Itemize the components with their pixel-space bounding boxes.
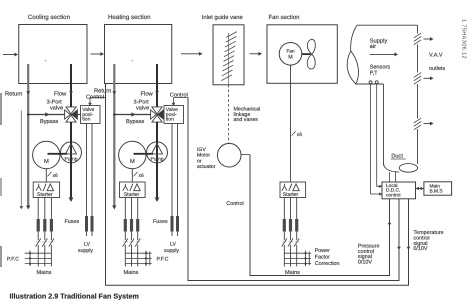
svg-text:LV: LV [170,242,176,248]
label M heating [130,159,135,165]
main BMS box [424,182,452,195]
LV supply wires heating [171,124,180,237]
svg-text:Correction: Correction [315,261,340,267]
label Main B.M.S [430,184,443,195]
label 3-Port valve (heating) [134,100,150,112]
control bus fan section [250,155,390,276]
label Flow (cooling) [54,90,67,97]
duct bottom wall to sensors [356,83,384,85]
flow pipe lower cooling [70,122,72,198]
label x6 heating [139,173,145,179]
svg-text:Starter: Starter [37,192,53,198]
wire: air arrow guide vane to fan section [250,52,263,56]
flow outlet arrow heating [155,198,160,203]
svg-text:LV: LV [84,242,90,248]
label P.F.C (cooling) [7,256,19,262]
label V.A.V outlets [429,53,445,72]
svg-text:valve: valve [136,105,149,112]
motor-pump shaft heating [134,153,154,155]
label Pressure control signal 0/10V [358,244,380,266]
pump triangle heating [152,144,163,154]
svg-text:P.F.C: P.F.C [7,256,19,262]
svg-text:M: M [288,55,293,61]
node center mark heating coil [131,59,134,62]
pump triangle cooling [66,144,77,154]
return flow tick cooling [26,91,30,94]
VAV outlet arrow 2 [424,76,434,80]
temperature sensor wires duct to DDC [390,171,396,182]
star-delta symbol cooling [36,184,54,191]
svg-text:M: M [130,159,135,165]
bypass junction dot cooling [27,113,30,116]
duct break mark 3 [414,118,421,130]
duct left wall [383,84,385,166]
VAV outlet arrow 3 [424,122,434,126]
label P.F.C (heating) [157,256,169,262]
x6 leader heating [134,172,138,177]
svg-text:actuator: actuator [197,164,216,170]
svg-text:Power: Power [315,248,330,254]
label Control (heating) [170,92,188,99]
svg-text:Factor: Factor [315,255,330,261]
label Starter cooling [37,192,53,198]
label x6 (fan) [297,132,303,138]
label Starter fan [283,192,299,198]
label Mains fan [285,269,300,276]
duct transition curve [351,25,357,51]
svg-text:x6: x6 [53,173,59,179]
svg-text:valve: valve [50,105,63,112]
label 3-Port valve (cooling) [47,100,64,112]
svg-text:tion: tion [82,116,90,122]
svg-text:Starter: Starter [124,192,140,198]
starter output wires cooling [38,198,51,267]
svg-text:Bypass: Bypass [126,119,145,125]
inlet guide vane box [213,25,244,85]
label Power Factor Correction [315,248,340,267]
valve position box cooling [81,106,101,124]
fuses heating [124,219,140,232]
svg-text:Duct: Duct [391,153,403,159]
sensor wires to DDC [371,83,383,195]
wire: air arrow heating to inlet guide vane [181,52,203,56]
svg-text:Heating section: Heating section [108,14,151,21]
label Return (heating pipe label) [94,88,111,94]
drawing number 175HA306.12 [460,19,466,59]
cooling auxiliary drop wire with arrow [20,111,24,210]
duct top wall [357,24,418,26]
return flow tick heating [112,91,116,94]
svg-text:supply: supply [164,248,179,254]
svg-text:and vanes: and vanes [234,117,259,123]
control bus cooling section [106,84,409,285]
starter output wires heating [125,198,137,267]
svg-text:Cooling section: Cooling section [28,14,71,21]
starter box cooling [33,182,59,198]
svg-text:Flow: Flow [141,90,154,97]
svg-text:Mains: Mains [124,269,139,276]
flow pipe upper cooling [70,64,72,107]
label Pump cooling [64,156,77,162]
svg-text:3-Port: 3-Port [47,100,63,106]
page edge artifact [0,93,2,267]
svg-text:P.F.C: P.F.C [157,256,169,262]
fan propeller blades [307,39,315,69]
svg-text:Control: Control [170,92,188,99]
svg-text:Illustration 2.9 Traditional F: Illustration 2.9 Traditional Fan System [10,292,139,301]
svg-text:0/10V: 0/10V [413,246,427,252]
pump circle heating [147,142,168,163]
label IGV Motor or actuator [197,147,216,170]
label Mains cooling [37,269,52,276]
control wire into valve position box heating [172,98,188,107]
x6 leader (fan) [292,131,296,136]
sensor P [369,81,372,84]
bypass pipe cooling [28,114,64,116]
svg-text:P,T: P,T [370,70,379,76]
label Control (cooling) [86,93,104,100]
flow pipe lower heating [156,122,158,198]
svg-text:outlets: outlets [429,66,445,72]
flow outlet arrow cooling [69,198,74,203]
pump motor M circle cooling [33,141,60,168]
x6 leader cooling [48,172,52,177]
label Heating section [108,14,151,21]
flow tick cooling [69,91,73,94]
contactor fan [282,238,300,246]
svg-text:0/10V: 0/10V [358,260,372,266]
svg-text:1 75HA306.12: 1 75HA306.12 [460,19,466,59]
contactor heating [123,238,141,246]
svg-text:M: M [44,159,49,165]
valve link to positioner cooling [71,114,81,116]
svg-text:B.M.S: B.M.S [430,189,443,195]
bypass arrow cooling [45,112,50,116]
svg-text:x6: x6 [297,132,303,138]
label x6 cooling [53,173,59,179]
star-delta symbol heating [123,184,140,191]
label Bypass (heating) [126,119,145,125]
motor wire to starter cooling [45,169,47,182]
return pipe cooling [26,64,30,210]
label Fuses (heating) [153,219,168,225]
svg-text:Mains: Mains [37,269,52,276]
flow pipe upper heating [156,64,158,107]
label Local D.D.C. control [386,183,400,199]
3-port valve heating [151,107,164,122]
label LV supply (cooling) [78,242,93,254]
pump circle cooling [61,142,82,163]
sensor T [375,81,378,84]
control bus heating section [188,98,399,281]
pump motor M circle heating [119,141,146,168]
svg-text:Control: Control [86,93,104,100]
fan section box [267,25,337,84]
duct bottom ellipse [384,164,418,173]
flow tick heating [155,91,159,94]
svg-text:control: control [386,192,400,198]
svg-text:Fuses: Fuses [153,219,168,225]
inlet guide vanes hatching [221,32,237,85]
label Return (cooling) [5,91,22,97]
arrow on fan control bus [388,223,392,226]
duct break mark 1 [414,33,421,45]
svg-text:3-Port: 3-Port [134,100,150,106]
contactor cooling [36,238,54,246]
motor-pump shaft cooling [48,153,68,155]
svg-text:Starter: Starter [283,192,299,198]
cooling section box [19,25,87,84]
LV supply wires cooling [85,124,94,237]
bypass pipe heating [114,114,150,116]
svg-text:Control: Control [226,201,243,207]
arrow on cooling control bus [407,247,411,250]
label Supply air [370,37,388,50]
svg-text:Fan: Fan [286,49,294,54]
label Fan section [269,14,300,21]
fan motor M1 circle [279,43,302,66]
label valve position cooling [82,107,94,122]
svg-text:tion: tion [166,116,174,122]
label Inlet guide vane [202,14,243,21]
bypass arrow heating [131,112,136,116]
duct break mark 2 [414,73,421,85]
VAV outlet arrow 1 [424,37,434,41]
mains ties and PFC connection cooling [25,251,52,266]
wire: air arrow cooling to heating [91,52,105,56]
label LV supply (heating) [164,242,179,254]
fan shaft [302,53,311,55]
node center mark cooling coil [44,59,47,62]
mains ties and PFC connection heating [125,251,151,266]
svg-text:Mains: Mains [285,269,300,276]
label Duct [391,153,406,159]
control wire into valve position box cooling [88,98,105,107]
wire: supply air inlet arrow into cooling section [3,53,18,57]
starter output wires fan [284,198,296,267]
heating section box [105,25,172,84]
svg-text:Pump: Pump [150,156,163,162]
valve position box heating [164,106,184,124]
svg-text:Fuses: Fuses [65,219,80,225]
label Fuses (cooling) [65,219,80,225]
wire IGV actuator to control bus [241,154,250,156]
svg-text:supply: supply [78,248,93,254]
mains ties and PFC connection fan [284,251,311,266]
svg-text:Pump: Pump [64,156,77,162]
starter box fan [280,182,306,198]
svg-text:Return: Return [5,91,22,97]
mechanical linkage dashed line [228,85,230,144]
caption Illustration 2.9 Traditional Fan System [10,292,139,301]
3-port valve cooling [65,107,78,122]
label Temperature control signal 0/10V [413,230,443,252]
svg-text:V.A.V: V.A.V [429,53,443,59]
label Starter heating [124,192,140,198]
label Mains heating [124,269,139,276]
label Mechanical linkage and vanes [234,107,261,123]
IGV motor actuator circle [217,143,241,167]
svg-text:x6: x6 [139,173,145,179]
fuses cooling [37,219,53,232]
flexible connection lens [347,51,358,84]
starter box heating [120,182,146,198]
fan motor wire to starter [290,65,292,182]
svg-text:Inlet guide vane: Inlet guide vane [202,14,243,21]
svg-text:Bypass: Bypass [40,119,59,125]
label Pump heating [150,156,163,162]
star-delta symbol fan [282,184,300,191]
DDC to BMS link [416,187,424,191]
bypass junction dot heating [113,113,116,116]
supply air flow arrow [370,52,398,56]
label Flow (heating) [141,90,154,97]
label Bypass (cooling) [40,119,59,125]
label Cooling section [28,14,71,21]
svg-text:Fan section: Fan section [269,14,300,21]
label Control (fan) [226,201,243,207]
svg-text:air: air [370,43,377,50]
fuses fan [283,219,299,232]
return pipe heating [112,64,116,210]
valve link to positioner heating [157,114,164,116]
motor wire to starter heating [131,169,133,182]
svg-text:Flow: Flow [54,90,67,97]
label valve position heating [166,107,178,122]
local DDC control box [382,182,416,199]
label Sensors P,T [370,64,391,76]
arrow on heating control bus [397,247,401,250]
label M cooling [44,159,49,165]
label Fan M [286,49,294,61]
duct right wall with breaks [417,25,419,164]
